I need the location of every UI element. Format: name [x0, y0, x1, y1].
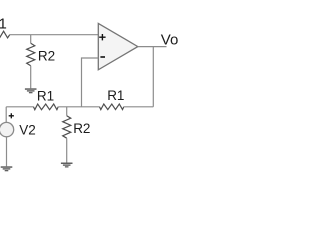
- voltage source V2: [0, 122, 14, 136]
- svg-text:Vo: Vo: [161, 32, 179, 49]
- svg-text:V2: V2: [19, 122, 36, 137]
- wire bottom middle: [58, 106, 99, 108]
- wire V2 top: [5, 107, 7, 123]
- svg-text:R1: R1: [0, 15, 7, 32]
- ground under V2: [1, 166, 13, 171]
- resistor R1 lower (horizontal): [34, 104, 59, 110]
- wire R2 lower to ground: [66, 138, 68, 162]
- wire output: [138, 46, 167, 48]
- wire bottom right (feedback R1 to output tap): [124, 106, 154, 108]
- wire V2 to ground: [6, 137, 8, 167]
- wire bottom horizontal left: [6, 106, 33, 108]
- ground under R2 lower: [61, 163, 73, 168]
- svg-text:R1: R1: [107, 88, 124, 103]
- ground under R2 upper: [25, 88, 37, 93]
- op-amp + sign: [99, 34, 105, 40]
- wire top horizontal (R1 to op-amp non-inverting input): [10, 34, 99, 36]
- resistor R1 feedback (horizontal): [100, 104, 124, 110]
- wire feedback vertical: [152, 47, 154, 107]
- wire stub to R2 lower: [66, 107, 68, 116]
- resistor R2 upper (vertical): [27, 43, 35, 65]
- resistor R2 lower (vertical): [63, 116, 71, 139]
- op-amp U1: [98, 23, 138, 69]
- wire stub to R2 upper: [30, 35, 32, 44]
- V2 plus sign: [9, 113, 14, 118]
- op-amp - sign: [100, 56, 105, 58]
- svg-text:R2: R2: [38, 49, 55, 64]
- svg-text:R1: R1: [37, 89, 54, 104]
- resistor R1 top-left (cut off at left edge): [0, 31, 10, 38]
- svg-text:R2: R2: [73, 121, 90, 136]
- wire inverting input: [82, 58, 99, 107]
- wire R2 upper to ground: [30, 66, 32, 89]
